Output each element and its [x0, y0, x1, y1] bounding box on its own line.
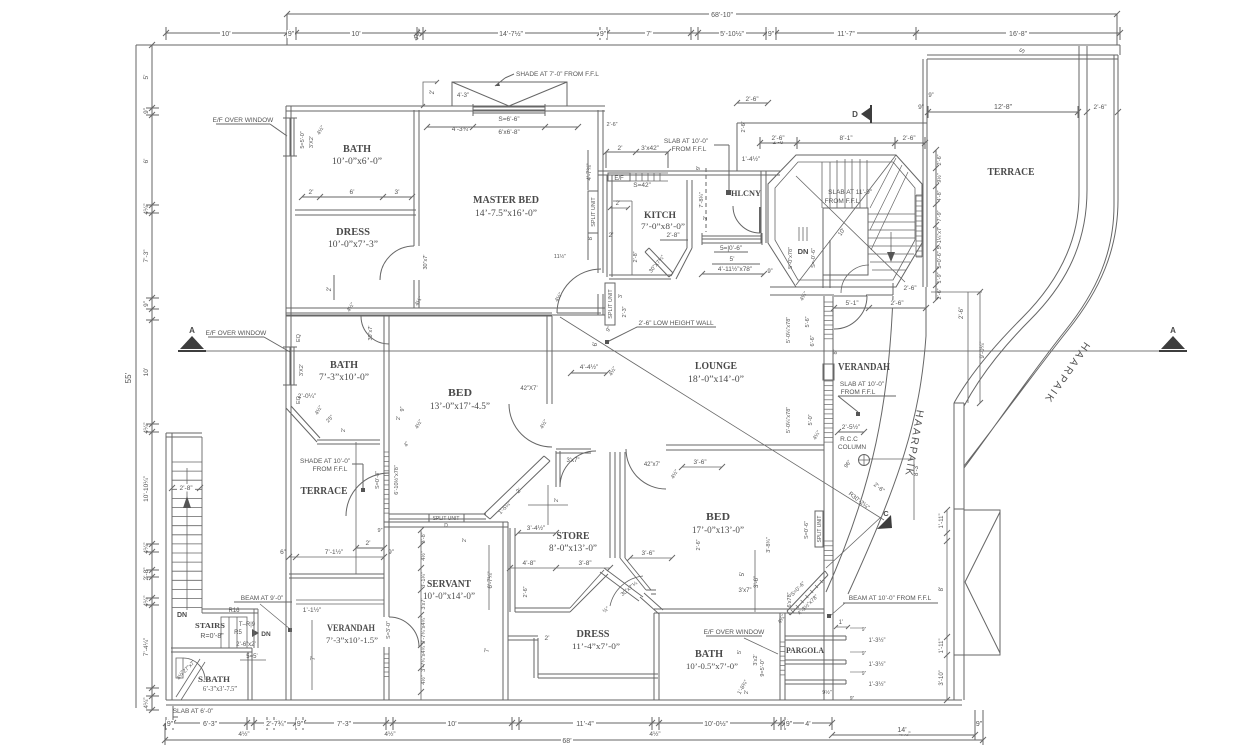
- dim bath1 bottom: [302, 196, 412, 198]
- wall: block bottom (y308): [286, 308, 605, 315]
- dim chain right of stairs: [935, 150, 937, 300]
- stairs hatch marks landing: [799, 227, 807, 241]
- svg-text:3’-6”: 3’-6”: [641, 550, 654, 557]
- stairs down arrow: [890, 232, 892, 252]
- svg-text:4’-3”: 4’-3”: [457, 93, 469, 99]
- svg-text:SERVANT: SERVANT: [427, 579, 471, 590]
- svg-text:5’-1¼”x7’: 5’-1¼”x7’: [937, 227, 943, 250]
- wall: bed17 SW diagonal: [620, 558, 651, 590]
- svg-text:A: A: [1170, 326, 1176, 335]
- svg-text:3’X2’: 3’X2’: [299, 364, 305, 376]
- svg-text:2’-6”: 2’-6”: [903, 285, 916, 292]
- svg-text:3’-6”: 3’-6”: [693, 459, 706, 466]
- svg-text:10’-0.5”x7’-0”: 10’-0.5”x7’-0”: [686, 661, 738, 671]
- window hatch verandah 1: [824, 301, 833, 303]
- dim above stairs: [760, 142, 925, 144]
- window bath3 right wall: [780, 641, 785, 643]
- svg-text:5’: 5’: [740, 572, 746, 577]
- wall: building bottom: [166, 700, 962, 705]
- svg-text:SPLIT UNIT: SPLIT UNIT: [591, 197, 597, 227]
- svg-text:2’: 2’: [554, 498, 560, 502]
- svg-text:BED: BED: [448, 388, 472, 399]
- stairs landing boxes: [221, 617, 247, 648]
- svg-text:TERRACE: TERRACE: [988, 167, 1035, 178]
- svg-text:SLAB AT 11’-9”: SLAB AT 11’-9”: [828, 189, 872, 196]
- wall: kitchen+balcony top: [598, 171, 780, 175]
- window servant west wall: [384, 653, 389, 655]
- svg-text:1’-11”: 1’-11”: [939, 639, 945, 654]
- svg-text:1’-1½”: 1’-1½”: [303, 606, 321, 614]
- wall: bath2 bottom / terrace top: [317, 440, 380, 444]
- svg-text:9”: 9”: [862, 627, 867, 633]
- svg-text:2’-6”: 2’-6”: [890, 300, 903, 307]
- svg-text:2’: 2’: [462, 538, 468, 542]
- ramp inner double verticals: [1079, 46, 1087, 195]
- svg-text:6’-10½”x78”: 6’-10½”x78”: [393, 465, 400, 495]
- stairs landing walls: [202, 609, 258, 648]
- svg-text:9”: 9”: [167, 721, 174, 728]
- svg-text:SHADE AT 10’-0”: SHADE AT 10’-0”: [300, 458, 350, 465]
- stairs landing wall left: [823, 240, 830, 288]
- svg-text:A: A: [189, 326, 195, 335]
- svg-text:PARGOLA: PARGOLA: [786, 646, 824, 655]
- svg-text:9½”: 9½”: [822, 689, 832, 696]
- wall: below stairs / verandah top: [770, 287, 893, 295]
- svg-text:9’-0¼”: 9’-0¼”: [980, 341, 986, 358]
- svg-text:2’-6”: 2’-6”: [606, 122, 617, 128]
- wall: bed13 right: [547, 316, 552, 404]
- svg-text:4½”: 4½”: [649, 730, 660, 738]
- svg-text:4¼”: 4¼”: [143, 422, 150, 433]
- svg-text:9”: 9”: [862, 651, 867, 657]
- svg-text:4’-4½”: 4’-4½”: [580, 363, 598, 371]
- svg-text:9”: 9”: [288, 31, 295, 38]
- svg-text:4’-8”: 4’-8”: [522, 560, 535, 567]
- wall: master bed right: [598, 110, 603, 315]
- svg-text:30”x7’: 30”x7’: [368, 326, 374, 341]
- door arc store-dress: [610, 576, 643, 606]
- section marker A left: [180, 336, 204, 349]
- svg-text:9”: 9”: [976, 721, 983, 728]
- svg-text:18’-0”x14’-0”: 18’-0”x14’-0”: [688, 374, 744, 384]
- window: left wall upper: [283, 118, 297, 156]
- svg-text:2’-6”x2’: 2’-6”x2’: [236, 642, 256, 648]
- svg-text:5’-0¼”x78”: 5’-0¼”x78”: [786, 317, 792, 343]
- svg-text:9”: 9”: [918, 104, 924, 111]
- svg-text:4¼”: 4¼”: [143, 203, 150, 214]
- wall: terrace bottom: [289, 574, 384, 578]
- svg-text:EQ: EQ: [296, 333, 302, 342]
- section line A-A: [192, 350, 1175, 352]
- door arc servant: [389, 617, 419, 647]
- counter hatch: [630, 173, 668, 181]
- svg-text:3’-10”: 3’-10”: [939, 670, 945, 685]
- svg-text:10’-10¼”: 10’-10¼”: [143, 476, 150, 502]
- wall: stairs top cap: [166, 433, 202, 437]
- svg-text:7’-3”: 7’-3”: [143, 249, 150, 262]
- wall: bed13 bottom: [389, 514, 486, 519]
- stairs octagon outer: [768, 155, 922, 287]
- svg-text:5=0’-6”: 5=0’-6”: [937, 251, 943, 268]
- ramp arc outer: [964, 200, 1118, 468]
- svg-text:4½”: 4½”: [384, 730, 395, 738]
- svg-text:HLCNY: HLCNY: [731, 188, 761, 198]
- svg-text:17’-0”x13’-0”: 17’-0”x13’-0”: [692, 525, 744, 535]
- door arc bed17: [626, 449, 666, 489]
- svg-text:13’-0”x17’-4.5”: 13’-0”x17’-4.5”: [430, 401, 490, 411]
- svg-text:1’-4½”: 1’-4½”: [742, 155, 760, 163]
- svg-text:8’-1”: 8’-1”: [839, 135, 852, 142]
- svg-text:4½”: 4½”: [420, 551, 427, 561]
- wall: left outer (bath1/dress1): [286, 106, 291, 408]
- svg-text:COLUMN: COLUMN: [838, 444, 866, 451]
- svg-text:6’: 6’: [349, 189, 355, 196]
- svg-text:TERRACE: TERRACE: [301, 486, 348, 497]
- plot border top: [136, 44, 1120, 46]
- svg-text:FROM F.F.L: FROM F.F.L: [841, 389, 876, 396]
- svg-text:S=6’-6”: S=6’-6”: [498, 116, 519, 123]
- svg-text:5’: 5’: [143, 74, 150, 80]
- svg-text:9”: 9”: [388, 549, 394, 556]
- svg-text:7’-3”x10’-0”: 7’-3”x10’-0”: [319, 372, 369, 382]
- svg-text:3’-8¾”: 3’-8¾”: [766, 537, 772, 553]
- svg-text:9’: 9’: [696, 166, 702, 170]
- store-dress diagonal door: [600, 568, 643, 601]
- svg-text:5=|0’-6”: 5=|0’-6”: [720, 245, 742, 252]
- svg-text:7’-3”: 7’-3”: [337, 721, 352, 728]
- svg-text:R=0’-8”: R=0’-8”: [200, 633, 224, 640]
- wall: s.bath block: [171, 648, 252, 652]
- wall: top of bath+master bed block: [286, 106, 605, 111]
- svg-text:12’-8”: 12’-8”: [994, 104, 1013, 111]
- svg-text:4’-8”: 4’-8”: [937, 190, 943, 201]
- svg-text:9”: 9”: [378, 528, 383, 534]
- svg-text:MASTER BED: MASTER BED: [473, 195, 539, 206]
- svg-text:5’-6”: 5’-6”: [805, 316, 811, 327]
- svg-text:11½”: 11½”: [554, 253, 566, 260]
- svg-text:8’-3”: 8’-3”: [914, 464, 920, 476]
- svg-text:BEAM AT 10’-0” FROM F.F.L: BEAM AT 10’-0” FROM F.F.L: [849, 595, 932, 602]
- svg-text:10’-0”x6’-0”: 10’-0”x6’-0”: [332, 156, 382, 166]
- wall: terrace top: [927, 55, 1118, 59]
- svg-text:SPLIT UNIT: SPLIT UNIT: [817, 516, 823, 543]
- dim 9'-0.25 vertical right: [967, 292, 969, 403]
- dims bottom right: [946, 510, 948, 700]
- svg-text:STAIRS: STAIRS: [195, 621, 225, 630]
- dims servant: [420, 530, 422, 700]
- svg-text:1’-3½”: 1’-3½”: [868, 637, 885, 644]
- svg-text:8’: 8’: [939, 587, 945, 592]
- svg-text:7’: 7’: [646, 31, 652, 38]
- svg-text:2’-6”: 2’-6”: [902, 135, 915, 142]
- svg-text:BATH: BATH: [343, 144, 371, 155]
- stairs diagonals: [796, 155, 905, 285]
- svg-text:DN: DN: [798, 247, 809, 256]
- svg-text:2’: 2’: [744, 690, 750, 694]
- svg-text:6”: 6”: [280, 549, 286, 556]
- svg-text:10’: 10’: [351, 31, 361, 38]
- svg-text:R5: R5: [234, 630, 242, 636]
- svg-text:7’: 7’: [485, 648, 491, 653]
- dim terrace 12'-8": [928, 111, 1078, 113]
- svg-text:7’-3”x10’-1.5”: 7’-3”x10’-1.5”: [326, 635, 378, 645]
- svg-text:7’-4¼”: 7’-4¼”: [143, 638, 150, 656]
- svg-text:10’-0”x7’-3”: 10’-0”x7’-3”: [328, 239, 378, 249]
- pier verandah: [823, 364, 834, 380]
- svg-text:DN: DN: [261, 631, 271, 638]
- svg-text:2’-7¾”: 2’-7¾”: [266, 721, 287, 728]
- svg-text:6’-3”x3’-7.5”: 6’-3”x3’-7.5”: [203, 685, 237, 693]
- svg-text:55’: 55’: [124, 372, 133, 383]
- svg-text:5’-0”x78”: 5’-0”x78”: [788, 247, 794, 269]
- svg-text:2’: 2’: [396, 416, 402, 420]
- svg-text:S=3’-0”: S=3’-0”: [386, 621, 392, 639]
- svg-text:S=-0’-6”: S=-0’-6”: [811, 248, 817, 268]
- wall: bath2 SW diagonal: [286, 406, 320, 442]
- svg-text:LOUNGE: LOUNGE: [695, 361, 737, 372]
- svg-text:42”X7’: 42”X7’: [520, 386, 537, 392]
- label 2'-8 stairs: [177, 484, 195, 492]
- diagonal window verandah-pergola: [787, 571, 828, 615]
- svg-text:BATH: BATH: [695, 649, 723, 660]
- stairs center line with up arrow: [186, 468, 188, 610]
- door arc terrace: [346, 473, 389, 516]
- svg-text:2’: 2’: [341, 428, 347, 432]
- svg-text:7’-9”: 7’-9”: [937, 210, 943, 221]
- wall: kitchen right: [687, 180, 692, 248]
- svg-text:3’: 3’: [394, 189, 400, 196]
- door: balcony: [759, 207, 761, 233]
- svg-text:S.BATH: S.BATH: [198, 675, 231, 684]
- svg-text:8’-0”x13’-0”: 8’-0”x13’-0”: [549, 543, 597, 553]
- svg-text:3’-1¼”: 3’-1¼”: [421, 572, 427, 588]
- svg-text:9”: 9”: [400, 406, 406, 411]
- svg-text:2’-6”: 2’-6”: [696, 539, 702, 550]
- dimension chain: top segments: [166, 32, 1120, 34]
- svg-text:9”: 9”: [928, 93, 933, 99]
- wall: left outer lower block: [166, 433, 172, 700]
- svg-text:2’: 2’: [617, 145, 623, 152]
- door arc master bed: [557, 269, 601, 313]
- wall: verandah top lines: [296, 600, 384, 604]
- svg-text:4’: 4’: [805, 721, 811, 728]
- svg-text:VERANDAH: VERANDAH: [327, 624, 376, 634]
- stairs inner landing square: [823, 208, 868, 275]
- svg-text:SLAB AT 10’-0”: SLAB AT 10’-0”: [840, 381, 884, 388]
- envelope hatch rectangle: [964, 510, 1000, 655]
- RCC column circle: [859, 455, 870, 466]
- svg-text:E/F OVER WINDOW: E/F OVER WINDOW: [704, 629, 766, 636]
- svg-text:4¼”: 4¼”: [143, 595, 150, 606]
- ramp arc pair: [954, 190, 1087, 406]
- pergola slats: [785, 636, 846, 640]
- svg-text:10’-0½”: 10’-0½”: [704, 720, 728, 728]
- door arc verandah top: [834, 296, 867, 329]
- wall: kitchen SE diagonal: [671, 248, 692, 279]
- dashed line kitchen-balcony: [705, 168, 707, 232]
- wall: store door jamb: [556, 451, 560, 487]
- window hatch verandah 2: [824, 380, 833, 382]
- window hatch verandah 3: [824, 540, 833, 542]
- wall: divider bath2-bed13 and spine upper: [384, 316, 389, 700]
- ramp arc inner A: [848, 336, 926, 594]
- svg-text:2’-6”: 2’-6”: [937, 154, 943, 165]
- svg-text:D: D: [444, 523, 448, 529]
- svg-text:3’: 3’: [618, 294, 624, 298]
- svg-text:SLAB AT 6’-0”: SLAB AT 6’-0”: [173, 708, 214, 715]
- wall: dress2 left bits: [508, 636, 538, 678]
- window hatch terrace/bed wall: [384, 451, 389, 453]
- svg-text:FROM F.F.L: FROM F.F.L: [672, 146, 707, 153]
- svg-text:10’: 10’: [143, 367, 150, 376]
- svg-text:2’-6”: 2’-6”: [745, 96, 758, 103]
- svg-text:9”: 9”: [768, 31, 775, 38]
- svg-text:VERANDAH: VERANDAH: [838, 362, 890, 373]
- wall: bath3 left: [654, 613, 659, 700]
- svg-text:2’-3”: 2’-3”: [622, 306, 628, 317]
- svg-text:2’: 2’: [544, 635, 550, 642]
- wall: bath2/bed top (block bottom): [286, 313, 552, 316]
- svg-text:9”: 9”: [143, 108, 150, 114]
- svg-text:3’-7¾”x4¾”: 3’-7¾”x4¾”: [421, 616, 427, 644]
- svg-text:1’-11”: 1’-11”: [939, 514, 945, 529]
- svg-text:7’-8¼”: 7’-8¼”: [699, 192, 705, 208]
- svg-text:2’: 2’: [616, 201, 621, 207]
- svg-text:STORE: STORE: [557, 531, 590, 542]
- svg-text:6’: 6’: [143, 158, 150, 164]
- svg-text:6’: 6’: [593, 342, 599, 347]
- svg-text:14’-7.5”x16’-0”: 14’-7.5”x16’-0”: [475, 208, 537, 218]
- svg-text:5’-1”: 5’-1”: [845, 300, 858, 307]
- wall: verandah left (with windows): [824, 296, 833, 700]
- split unit label box bed13: [429, 514, 464, 522]
- long diagonal sight line 1: [560, 317, 884, 520]
- svg-text:3’x7”: 3’x7”: [566, 458, 579, 464]
- svg-text:E/F OVER WINDOW: E/F OVER WINDOW: [206, 330, 268, 337]
- svg-text:2’: 2’: [365, 540, 371, 547]
- svg-text:5’: 5’: [729, 256, 735, 263]
- svg-text:30”x7’: 30”x7’: [423, 255, 429, 270]
- svg-text:68’: 68’: [562, 738, 572, 745]
- counter E/F box: [608, 173, 630, 181]
- svg-text:2’-6”: 2’-6”: [959, 307, 965, 319]
- window: left wall lower: [283, 347, 297, 385]
- svg-text:S=42”: S=42”: [633, 182, 651, 189]
- svg-text:2’-6”: 2’-6”: [741, 121, 747, 132]
- svg-text:1’: 1’: [839, 620, 844, 626]
- svg-text:1’-9”: 1’-9”: [937, 272, 943, 283]
- svg-text:9”: 9”: [767, 269, 772, 275]
- wall: bed17 left: [620, 452, 625, 558]
- split unit bed17: [815, 511, 823, 547]
- svg-text:4½”: 4½”: [238, 730, 249, 738]
- svg-text:7’-0”x8’-0”: 7’-0”x8’-0”: [641, 221, 685, 231]
- shade line terrace: [355, 442, 357, 574]
- svg-text:3’X2’: 3’X2’: [309, 136, 315, 148]
- svg-text:4¼”: 4¼”: [143, 542, 150, 553]
- svg-text:T–R|9: T–R|9: [239, 622, 256, 628]
- svg-text:5’-10½”: 5’-10½”: [720, 30, 744, 38]
- svg-text:SPLIT UNIT: SPLIT UNIT: [433, 516, 460, 522]
- svg-text:C: C: [883, 509, 889, 518]
- svg-text:6’-6”: 6’-6”: [810, 335, 816, 346]
- svg-text:3’x2’: 3’x2’: [753, 654, 759, 665]
- wall: bottom right vertical: [954, 403, 964, 700]
- stairs octagon inner: [775, 162, 915, 280]
- svg-text:KITCH: KITCH: [644, 211, 677, 221]
- wall: kitchen left: [607, 175, 612, 277]
- svg-text:2’-6”: 2’-6”: [771, 135, 784, 142]
- svg-text:3’-8”: 3’-8”: [421, 532, 427, 543]
- wall: bed17 top: [666, 445, 824, 450]
- wall: terrace right: [1114, 55, 1118, 205]
- svg-text:10’: 10’: [221, 31, 231, 38]
- svg-text:FROM F.F.L: FROM F.F.L: [825, 198, 860, 205]
- wall: verandah-left walls: [286, 408, 291, 700]
- svg-text:14’: 14’: [897, 727, 907, 734]
- kitchen sink diagonal: [645, 248, 673, 277]
- shade triangle above master bed: [452, 82, 567, 106]
- stairs treads top: [822, 159, 867, 208]
- door arc store: [560, 451, 596, 487]
- wall: store right: [610, 452, 615, 558]
- svg-text:9½”: 9½”: [936, 173, 943, 183]
- svg-text:2’: 2’: [608, 232, 614, 239]
- svg-text:6’x6’-8”: 6’x6’-8”: [498, 129, 519, 136]
- svg-text:SPLIT UNIT: SPLIT UNIT: [608, 289, 614, 319]
- svg-text:BEAM AT 9’-0”: BEAM AT 9’-0”: [241, 595, 283, 602]
- svg-text:2’: 2’: [308, 189, 314, 196]
- svg-text:5’: 5’: [737, 650, 743, 654]
- svg-text:R.C.C: R.C.C: [840, 436, 858, 443]
- wall: kitchen bottom: [609, 275, 671, 279]
- wall: servant right: [503, 522, 508, 700]
- plot border left: [135, 45, 137, 708]
- long diagonal sight line 2: [826, 517, 881, 568]
- wall: terrace left: [923, 59, 927, 287]
- wall: balcony right: [761, 171, 766, 243]
- dimension chain: bottom 14': [832, 734, 975, 736]
- svg-text:2’: 2’: [327, 287, 333, 292]
- svg-text:5=5’-0”: 5=5’-0”: [300, 131, 306, 148]
- wall: bed17/dress corner: [646, 590, 656, 594]
- svg-text:DN: DN: [177, 612, 187, 619]
- dimension chain: top total 68'-10": [287, 13, 1117, 15]
- svg-text:68’-10”: 68’-10”: [711, 12, 733, 19]
- svg-text:3’-8”: 3’-8”: [578, 560, 591, 567]
- svg-text:9”: 9”: [297, 721, 304, 728]
- window: balcony bottom rail: [702, 233, 762, 245]
- svg-text:2’-6”: 2’-6”: [937, 288, 943, 299]
- svg-text:11’-7”: 11’-7”: [837, 31, 855, 38]
- stairs left treads: [172, 461, 202, 463]
- svg-text:4½”: 4½”: [420, 675, 427, 685]
- dim verandah top: [834, 307, 926, 309]
- dimension chain: bottom segments: [166, 722, 832, 724]
- dimension chain: left: [151, 45, 153, 710]
- svg-text:1’-3½”: 1’-3½”: [868, 681, 885, 688]
- wall: store top: [556, 449, 591, 453]
- svg-text:E/F: E/F: [614, 176, 624, 182]
- wall: bath1 bottom: [295, 210, 416, 215]
- svg-text:5’-0¼”x78”: 5’-0¼”x78”: [786, 407, 792, 433]
- wall: bed17 bottom / bath3 top: [654, 609, 824, 613]
- svg-text:2’-6”: 2’-6”: [1093, 104, 1106, 111]
- wall: servant top: [384, 522, 508, 527]
- section marker A right: [1161, 336, 1185, 349]
- svg-text:2’-6” LOW HEIGHT WALL: 2’-6” LOW HEIGHT WALL: [638, 320, 714, 327]
- svg-text:D: D: [852, 110, 858, 119]
